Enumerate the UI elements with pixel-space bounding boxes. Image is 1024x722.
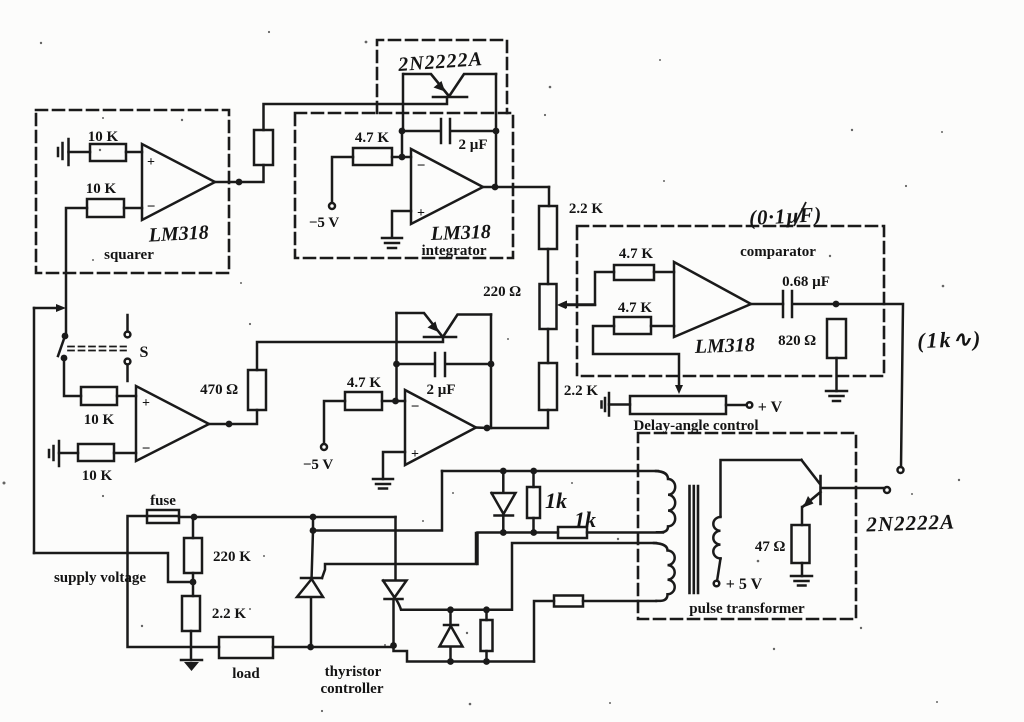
wire R20 to ground bbox=[801, 563, 804, 576]
node U4 output bbox=[484, 425, 491, 432]
svg-text:−: − bbox=[142, 441, 151, 457]
2N2222A reset transistor dashed box bbox=[377, 40, 507, 113]
svg-text:220 Ω: 220 Ω bbox=[483, 284, 521, 300]
svg-text:supply voltage: supply voltage bbox=[54, 570, 146, 586]
wiper arrow into 220 ohm pot bbox=[557, 301, 595, 309]
svg-text:load: load bbox=[232, 666, 260, 682]
resistor R8 10K bbox=[78, 444, 114, 461]
switch S second pole contacts bbox=[125, 315, 131, 381]
resistor R17 1k horizontal bbox=[558, 527, 587, 538]
node R16 top bbox=[530, 468, 537, 475]
svg-text:controller: controller bbox=[320, 681, 383, 697]
resistor R7 10K bbox=[81, 387, 117, 405]
svg-text:470 Ω: 470 Ω bbox=[200, 382, 238, 398]
svg-text:−5 V: −5 V bbox=[309, 215, 340, 231]
node switch bottom bbox=[61, 355, 68, 362]
op-amp U2 LM318 integrator bbox=[411, 149, 483, 224]
node R18 top bbox=[483, 606, 490, 613]
op-amp U3 bbox=[136, 386, 209, 461]
transistor Q2 (integrator2 reset) bbox=[397, 313, 492, 337]
wire integrator output right bbox=[483, 186, 549, 189]
node comparator output bbox=[833, 301, 840, 308]
terminal -5V open circle 2 bbox=[321, 444, 327, 450]
node divider bbox=[190, 579, 197, 586]
resistor R19 (to lower winding) bbox=[554, 596, 583, 607]
wire R17 to upper winding bottom bbox=[587, 531, 663, 534]
svg-text:+ V: + V bbox=[758, 399, 783, 416]
ground supply divider bbox=[181, 660, 202, 671]
svg-text:Delay-angle control: Delay-angle control bbox=[633, 418, 758, 434]
svg-text:2 µF: 2 µF bbox=[458, 137, 487, 153]
op-amp U4 LM318 integrator2 bbox=[405, 390, 476, 465]
wire R8 to op-amp - input bbox=[114, 452, 136, 455]
wire cap2 left down to inv node bbox=[395, 364, 398, 401]
wire R5 to pot bbox=[547, 249, 550, 284]
thyristor T2 (anode up) bbox=[383, 517, 407, 599]
svg-text:4.7 K: 4.7 K bbox=[347, 375, 382, 391]
wire down to R14 bbox=[192, 517, 195, 538]
terminal -5V open circle bbox=[329, 203, 335, 209]
gate T2 wire bbox=[397, 543, 657, 610]
svg-text:10 K: 10 K bbox=[82, 468, 113, 484]
wire B2 to R8 bbox=[59, 452, 78, 455]
wire bus to switch node with arrow bbox=[34, 304, 66, 312]
wire Q1 right terminal down to cap node bbox=[495, 74, 498, 131]
wire rail B-prime left bbox=[313, 471, 442, 531]
resistor R1 10K bbox=[90, 144, 126, 161]
node cap2 left bbox=[393, 361, 400, 368]
wire L3 top to Q3 collector bbox=[721, 460, 802, 516]
wire R15 to rail and ground bbox=[190, 631, 193, 660]
wire R1 to op-amp + input bbox=[126, 151, 142, 154]
wire R12 to op-amp bbox=[651, 325, 674, 328]
svg-text:−5 V: −5 V bbox=[303, 457, 334, 473]
svg-text:1k: 1k bbox=[574, 507, 596, 532]
svg-text:(1k∿): (1k∿) bbox=[917, 326, 983, 353]
svg-text:pulse transformer: pulse transformer bbox=[689, 601, 805, 617]
svg-text:−: − bbox=[411, 399, 420, 415]
op-amp U1 LM318 squarer bbox=[142, 144, 215, 220]
svg-text:2.2 K: 2.2 K bbox=[212, 606, 247, 622]
svg-text:0.68 µF: 0.68 µF bbox=[782, 274, 830, 290]
node R16 bottom bbox=[530, 529, 537, 536]
node rail upper pair bbox=[310, 514, 317, 534]
resistor R6 2.2K bbox=[539, 363, 557, 410]
wire inv node up to cap bbox=[401, 131, 404, 157]
node fuse-220K bbox=[191, 514, 198, 521]
potentiometer delay-angle control bbox=[630, 396, 726, 414]
terminal link lower circle bbox=[884, 487, 890, 493]
transformer core bbox=[690, 486, 699, 593]
resistor R20 47 ohm bbox=[792, 525, 810, 563]
node D2 bottom bbox=[447, 658, 454, 665]
svg-text:+: + bbox=[417, 206, 425, 221]
transistor Q1 2N2222A bbox=[404, 74, 496, 97]
wire rail jog down bbox=[394, 646, 535, 662]
svg-text:1k: 1k bbox=[545, 488, 567, 513]
svg-text:2N2222A: 2N2222A bbox=[865, 509, 955, 536]
resistor R16 1k vertical bbox=[527, 471, 540, 533]
wire R9 top to Q2 base bbox=[257, 338, 443, 370]
wire output right and down to link bbox=[836, 304, 903, 467]
wire -5V supply to R4 bbox=[332, 157, 353, 203]
wire far-left vertical (feedback bus) bbox=[33, 308, 36, 553]
svg-text:−: − bbox=[147, 199, 156, 215]
wire R2 to op-amp - input bbox=[124, 207, 142, 210]
svg-text:10 K: 10 K bbox=[88, 129, 119, 145]
node D2 top bbox=[447, 606, 454, 613]
terminal +5V open circle bbox=[714, 581, 720, 587]
wire Q3 emitter to R20 bbox=[801, 507, 804, 525]
svg-text:thyristor: thyristor bbox=[325, 664, 382, 680]
wire rail B with T1 gate drop bbox=[478, 533, 559, 565]
wire Q2 right down to cap2 bbox=[490, 315, 493, 365]
battery B1 (squarer + input source) bbox=[58, 139, 69, 165]
battery B3 (delay pot left) bbox=[602, 393, 610, 416]
wire T2 cathode down bbox=[392, 599, 395, 646]
svg-text:4.7 K: 4.7 K bbox=[618, 300, 653, 316]
wire R7 to op-amp + bbox=[117, 395, 136, 398]
svg-text:10 K: 10 K bbox=[84, 412, 115, 428]
svg-text:820 Ω: 820 Ω bbox=[778, 333, 816, 349]
svg-text:−: − bbox=[417, 158, 426, 174]
ground integrator + input bbox=[382, 238, 402, 248]
label (0.1uF) handwritten bbox=[748, 202, 822, 230]
wire load to thyristors rail bbox=[273, 646, 394, 649]
wire U4 + input to ground bbox=[383, 452, 405, 479]
wire R3 top to Q1 base bbox=[264, 98, 448, 130]
resistor R11 4.7K bbox=[614, 265, 654, 280]
wire bottom rail up to R19 bbox=[534, 601, 554, 662]
wire R10 to U4 - input bbox=[382, 400, 405, 403]
node cap2 right bbox=[488, 361, 495, 368]
wire R11 to op-amp bbox=[654, 271, 674, 274]
wire Q1 left terminal down to cap node bbox=[402, 74, 405, 131]
svg-text:LM318: LM318 bbox=[147, 221, 209, 246]
node T1 anode rail bbox=[307, 644, 314, 651]
svg-text:4.7 K: 4.7 K bbox=[619, 246, 654, 262]
wire -5V to R10 bbox=[324, 401, 345, 444]
node cap right bbox=[493, 128, 500, 135]
svg-text:squarer: squarer bbox=[104, 247, 154, 263]
wire R6 bottom to integrator2 output bbox=[487, 410, 548, 428]
svg-text:220 K: 220 K bbox=[213, 549, 251, 565]
node R18 bottom bbox=[483, 658, 490, 665]
node integrator output bbox=[492, 184, 499, 191]
wire R19 to winding bbox=[583, 600, 656, 603]
svg-text:4.7 K: 4.7 K bbox=[355, 130, 390, 146]
svg-text:2.2 K: 2.2 K bbox=[569, 201, 604, 217]
resistor R9 470 ohm bbox=[248, 370, 266, 410]
svg-text:+: + bbox=[142, 396, 150, 411]
wire integrator out down chain bbox=[548, 187, 551, 206]
potentiometer 220 ohm bbox=[540, 284, 557, 329]
battery B2 (op-amp U3 - input source) bbox=[49, 441, 59, 466]
terminal +V open circle bbox=[747, 402, 753, 408]
wire U4 output right bbox=[476, 426, 487, 429]
wire R2 left to feedback node bbox=[66, 208, 87, 335]
wire R14 to R15 bbox=[192, 573, 195, 596]
diode D2 (cathode up) bbox=[440, 610, 463, 662]
node T2 cathode rail bbox=[390, 642, 397, 649]
diode D1 (cathode down) bbox=[492, 471, 516, 533]
resistor R15 2.2K bbox=[182, 596, 200, 631]
capacitor C1 2uF bbox=[402, 119, 496, 143]
wire squarer output bbox=[215, 165, 264, 182]
wire B3 to pot bbox=[609, 403, 630, 406]
node integrator inverting input bbox=[399, 154, 406, 161]
wire cap right down to output bbox=[495, 131, 498, 187]
capacitor C3 0.68uF bbox=[783, 291, 836, 317]
wire top gate rail bbox=[442, 470, 658, 473]
wire comparator output bbox=[751, 303, 783, 306]
svg-text:2.2 K: 2.2 K bbox=[564, 383, 599, 399]
wire Q2 left down to cap bbox=[395, 313, 398, 364]
wire cap2 right down to U4 output bbox=[490, 364, 493, 428]
resistor load bbox=[219, 637, 273, 658]
capacitor C2 2uF bbox=[397, 353, 492, 376]
wire fuse left down to bottom rail bbox=[128, 516, 220, 647]
svg-text:+: + bbox=[147, 155, 155, 170]
winding L3 secondary bbox=[713, 517, 720, 558]
transistor Q3 2N2222A bbox=[802, 460, 821, 508]
gate T1 wire bbox=[322, 533, 476, 578]
resistor R13 820 ohm bbox=[827, 319, 846, 358]
node cap left bbox=[399, 128, 406, 135]
svg-text:+ 5 V: + 5 V bbox=[726, 576, 763, 593]
svg-text:fuse: fuse bbox=[150, 493, 176, 509]
resistor R5 2.2K bbox=[539, 206, 557, 249]
svg-text:(0·1µF): (0·1µF) bbox=[748, 202, 822, 230]
svg-text:2 µF: 2 µF bbox=[426, 382, 455, 398]
squarer dashed box bbox=[36, 110, 229, 273]
ground U4 + input bbox=[373, 479, 393, 489]
wire R13 to ground bbox=[835, 358, 838, 391]
wire pot to +V bbox=[726, 404, 747, 407]
svg-text:integrator: integrator bbox=[422, 243, 487, 259]
switch S blade bbox=[58, 336, 65, 356]
integrator dashed box bbox=[295, 113, 513, 258]
fuse F1 bbox=[147, 510, 179, 523]
node D1 bottom bbox=[500, 529, 507, 536]
wire Q3 base right bbox=[822, 487, 884, 490]
svg-text:+: + bbox=[411, 447, 419, 462]
op-amp U5 LM318 comparator bbox=[674, 262, 751, 337]
switch S linkage dashed bbox=[68, 347, 126, 351]
node switch top bbox=[62, 333, 69, 340]
winding L1 primary upper bbox=[656, 471, 675, 532]
resistor R2 10K bbox=[87, 199, 124, 217]
svg-text:47 Ω: 47 Ω bbox=[755, 539, 786, 555]
svg-text:S: S bbox=[140, 344, 149, 361]
terminal link upper circle bbox=[898, 467, 904, 473]
wire R4 to op-amp - input bbox=[392, 156, 411, 159]
svg-text:LM318: LM318 bbox=[693, 334, 755, 358]
wire R12 left to delay pot wiper bbox=[593, 326, 683, 394]
wire U3 output bbox=[209, 410, 257, 424]
wire fuse right to rail bbox=[179, 516, 396, 519]
svg-text:10 K: 10 K bbox=[86, 181, 117, 197]
comparator dashed box bbox=[577, 226, 884, 376]
resistor R18 (unlabeled) bbox=[481, 610, 493, 662]
ground R20 bbox=[791, 576, 812, 586]
resistor R10 4.7K bbox=[345, 392, 382, 410]
resistor R12 4.7K bbox=[614, 317, 651, 334]
wire pot to R6 bbox=[547, 329, 550, 363]
thyristor T1 (cathode up) bbox=[297, 531, 323, 648]
wire switch to R7 bbox=[64, 358, 81, 396]
resistor R4 4.7K bbox=[353, 148, 392, 165]
resistor R14 220K bbox=[184, 538, 202, 573]
pulse transformer dashed box bbox=[638, 433, 856, 619]
winding L2 primary lower bbox=[654, 543, 675, 601]
wire R11 left to pot wiper arrow bbox=[558, 272, 614, 309]
wire L3 bottom to +5V terminal bbox=[717, 559, 720, 581]
svg-text:comparator: comparator bbox=[740, 244, 816, 260]
wire B1 to R1 bbox=[69, 151, 91, 154]
wire supply sense from bus bbox=[34, 553, 193, 582]
resistor R3 (base drive, unlabeled) bbox=[254, 130, 273, 165]
node squarer output bbox=[236, 179, 243, 186]
ground R13 bbox=[826, 391, 847, 401]
label thyristor controller bbox=[320, 664, 383, 697]
node U3 output bbox=[226, 421, 233, 428]
node D1 top bbox=[500, 468, 507, 475]
svg-text:LM318: LM318 bbox=[429, 221, 491, 245]
node U4 inverting input bbox=[392, 398, 399, 405]
wire + input to ground bbox=[392, 211, 411, 237]
